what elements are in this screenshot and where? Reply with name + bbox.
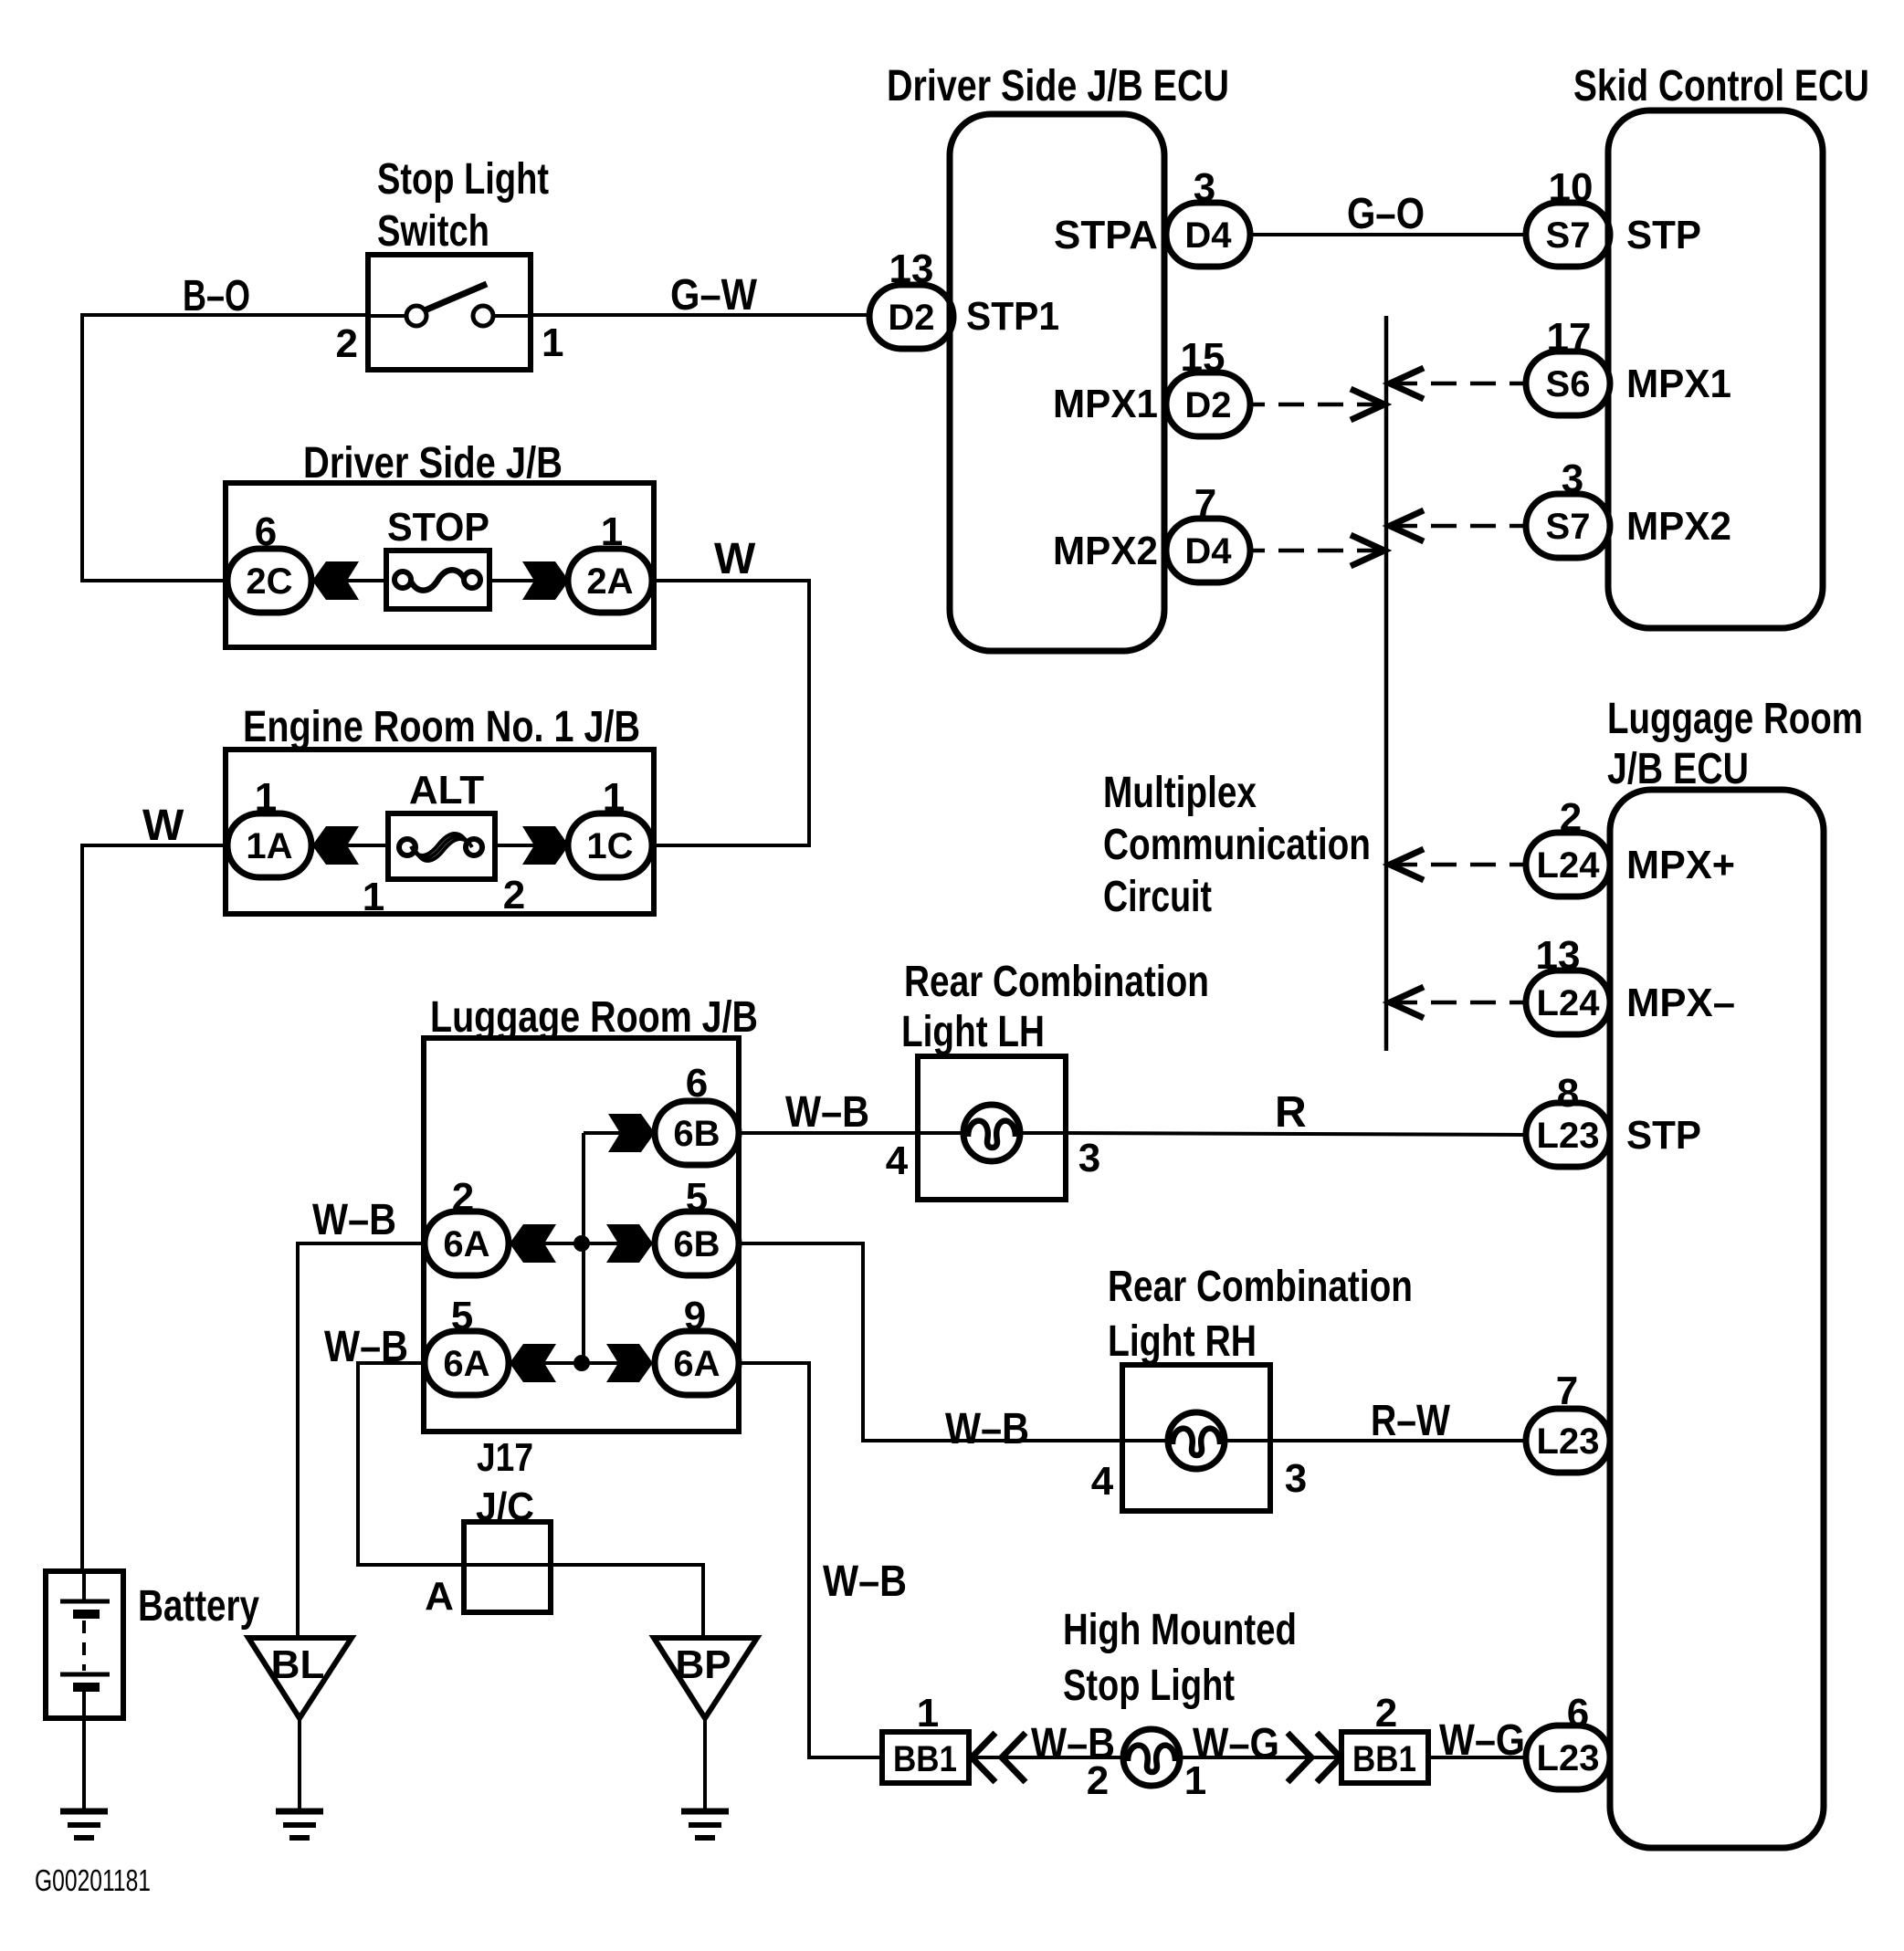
lamp bulb LH xyxy=(963,1105,1020,1161)
wire G-W switch to D2 xyxy=(531,313,869,317)
svg-text:Communication: Communication xyxy=(1103,821,1371,869)
wire R-W RH to L23 xyxy=(1270,1439,1526,1442)
svg-text:10: 10 xyxy=(1549,165,1594,210)
connector 6B pin 5 row2 xyxy=(655,1175,739,1275)
junction arrow right at 1C xyxy=(522,826,569,865)
junction arrow left row3 xyxy=(510,1344,556,1382)
Luggage Room J/B box xyxy=(424,993,758,1480)
svg-text:5: 5 xyxy=(451,1294,473,1338)
svg-text:J/C: J/C xyxy=(476,1484,534,1529)
svg-text:3: 3 xyxy=(1285,1456,1307,1501)
svg-text:17: 17 xyxy=(1547,315,1592,360)
connector L24 pin 2 (MPX+) xyxy=(1526,795,1610,897)
connector D2 pin 13 (STP1) xyxy=(869,246,953,349)
wire BP to ground xyxy=(703,1718,707,1811)
connector 6A pin 9 row3 xyxy=(655,1294,739,1395)
ground BL xyxy=(276,1811,323,1838)
svg-text:BB1: BB1 xyxy=(893,1739,957,1779)
svg-text:BL: BL xyxy=(271,1642,325,1687)
svg-text:6A: 6A xyxy=(673,1344,720,1384)
junction chevrons left of high mounted bulb xyxy=(972,1733,995,1782)
svg-text:1: 1 xyxy=(363,875,384,919)
svg-text:MPX1: MPX1 xyxy=(1053,382,1158,426)
svg-text:L23: L23 xyxy=(1537,1738,1600,1778)
svg-text:4: 4 xyxy=(1091,1459,1114,1504)
connector 6B pin 6 xyxy=(655,1061,739,1165)
wire W-B row2 to BL vertical xyxy=(298,1243,426,1638)
svg-text:W: W xyxy=(714,535,756,583)
svg-text:1: 1 xyxy=(917,1691,939,1736)
wire dashed MPX+ from L24 with arrow xyxy=(1390,849,1524,880)
svg-text:W–B: W–B xyxy=(312,1196,396,1244)
svg-text:Stop Light: Stop Light xyxy=(377,155,549,204)
svg-text:STP1: STP1 xyxy=(966,294,1059,339)
svg-text:L24: L24 xyxy=(1537,845,1601,886)
svg-text:2: 2 xyxy=(503,873,525,918)
svg-text:5: 5 xyxy=(686,1175,708,1220)
svg-text:L23: L23 xyxy=(1537,1116,1600,1156)
svg-text:W–B: W–B xyxy=(945,1405,1029,1453)
svg-text:G00201181: G00201181 xyxy=(35,1863,151,1897)
svg-text:Engine Room No. 1 J/B: Engine Room No. 1 J/B xyxy=(243,703,640,751)
fusible link ALT xyxy=(363,768,525,919)
wire dashed MPX1 from S6 with arrow xyxy=(1390,368,1524,399)
wire W-B 6B to rear light LH xyxy=(739,1131,918,1135)
connector L24 pin 13 (MPX-) xyxy=(1526,933,1610,1034)
wire multiplex communication vertical bus xyxy=(1384,316,1389,1051)
junction arrow left row2 xyxy=(510,1224,556,1263)
svg-text:Switch: Switch xyxy=(377,207,489,256)
connector S7 pin 10 (STP) xyxy=(1526,165,1610,267)
svg-text:G–O: G–O xyxy=(1347,190,1425,238)
svg-text:BP: BP xyxy=(675,1642,731,1687)
svg-text:W–B: W–B xyxy=(324,1323,408,1371)
svg-text:Driver Side J/B: Driver Side J/B xyxy=(303,439,563,488)
Driver Side J/B ECU box U1 xyxy=(887,62,1229,651)
ground triangle BL xyxy=(248,1638,352,1718)
svg-text:Skid Control ECU: Skid Control ECU xyxy=(1573,62,1869,110)
svg-text:3: 3 xyxy=(1194,165,1215,210)
wire W-B row3 to J/C xyxy=(358,1363,703,1638)
junction arrow right at 6B top xyxy=(608,1114,655,1152)
svg-text:Luggage Room: Luggage Room xyxy=(1607,695,1863,743)
wire row2 6A to 6B with junction xyxy=(509,1242,655,1245)
svg-text:Rear Combination: Rear Combination xyxy=(1108,1263,1413,1311)
wire W-B 6A row3 down to BB1 xyxy=(739,1363,882,1757)
svg-text:D2: D2 xyxy=(888,298,934,338)
Driver Side J/B box xyxy=(226,439,654,647)
svg-text:6A: 6A xyxy=(443,1224,489,1264)
lamp bulb high mounted stop light xyxy=(1123,1729,1180,1786)
svg-text:High Mounted: High Mounted xyxy=(1063,1606,1297,1654)
svg-text:3: 3 xyxy=(1078,1136,1100,1180)
svg-text:STPA: STPA xyxy=(1054,213,1158,257)
svg-text:S7: S7 xyxy=(1546,507,1591,547)
wire W-G bulb to BB1 xyxy=(1180,1756,1341,1759)
connector 1A pin 1 xyxy=(227,775,311,877)
svg-text:6: 6 xyxy=(1567,1691,1589,1736)
wire inner vertical in luggage J/B xyxy=(582,1133,585,1363)
node High Mounted Stop Light label xyxy=(1063,1606,1297,1710)
svg-text:W: W xyxy=(142,802,184,850)
svg-text:2: 2 xyxy=(1087,1758,1109,1803)
svg-text:D4: D4 xyxy=(1184,215,1232,256)
svg-text:STP: STP xyxy=(1626,1113,1701,1158)
svg-text:7: 7 xyxy=(1194,481,1216,526)
wire B-O from stop light switch to left vertical xyxy=(82,315,368,581)
svg-text:S7: S7 xyxy=(1546,215,1591,256)
ground triangle BP xyxy=(654,1638,757,1718)
svg-text:D4: D4 xyxy=(1184,531,1232,572)
connector L23 pin 6 xyxy=(1526,1691,1610,1789)
svg-text:1: 1 xyxy=(542,320,563,365)
svg-text:MPX2: MPX2 xyxy=(1626,504,1731,549)
connector 2A pin 1 xyxy=(568,509,652,613)
svg-text:6: 6 xyxy=(686,1061,708,1106)
svg-text:2: 2 xyxy=(1375,1691,1397,1736)
connector D2 pin 15 (MPX1) xyxy=(1166,335,1250,436)
svg-text:7: 7 xyxy=(1556,1369,1578,1413)
fuse STOP xyxy=(386,505,489,609)
wire dashed MPX2 from S7 with arrow xyxy=(1390,510,1524,541)
connector BB1 pin 2 xyxy=(1341,1691,1428,1783)
svg-text:B–O: B–O xyxy=(183,272,250,320)
svg-text:S6: S6 xyxy=(1546,364,1591,404)
svg-text:MPX2: MPX2 xyxy=(1053,529,1158,573)
wire dashed MPX2 from D4 with arrow xyxy=(1250,535,1384,566)
svg-text:Multiplex: Multiplex xyxy=(1103,769,1257,817)
connector L23 pin 8 (STP) xyxy=(1526,1071,1610,1167)
wire G-O from D4 to S7 xyxy=(1250,233,1526,236)
connector 6A pin 2 row2 xyxy=(425,1175,509,1275)
stop light switch SW xyxy=(336,155,564,370)
svg-text:R: R xyxy=(1275,1088,1307,1137)
svg-text:1: 1 xyxy=(255,775,277,820)
wire inner stub to 6B top xyxy=(584,1131,655,1135)
connector D4 pin 7 (MPX2) xyxy=(1166,481,1250,582)
wire W from 2A down to 1C xyxy=(652,581,809,845)
svg-text:MPX+: MPX+ xyxy=(1626,843,1735,887)
Luggage Room J/B ECU box U3 xyxy=(1607,695,1863,1848)
svg-text:13: 13 xyxy=(1536,933,1581,978)
svg-text:Rear Combination: Rear Combination xyxy=(904,958,1209,1006)
svg-text:2: 2 xyxy=(452,1175,474,1220)
connector D4 pin 3 (STPA) xyxy=(1166,165,1250,267)
svg-text:ALT: ALT xyxy=(409,768,484,813)
wire dashed MPX1 from D2 with arrow xyxy=(1250,389,1384,420)
svg-text:Battery: Battery xyxy=(138,1582,259,1631)
wire R from LH to L23 xyxy=(1066,1133,1526,1135)
svg-text:2C: 2C xyxy=(246,561,292,602)
junction arrow left at 1A xyxy=(312,826,359,865)
ground BP xyxy=(681,1811,729,1838)
wire 6B row2 down to rear light RH xyxy=(739,1243,1122,1441)
Skid Control ECU box U2 xyxy=(1573,62,1869,628)
svg-text:STOP: STOP xyxy=(387,505,489,550)
connector S6 pin 17 (MPX1) xyxy=(1526,315,1610,415)
junction chevrons right toward BB1 xyxy=(1288,1733,1311,1782)
svg-text:W–B: W–B xyxy=(823,1558,907,1606)
junction arrow right at 2A xyxy=(522,561,569,600)
junction arrow right row3 xyxy=(606,1344,653,1382)
svg-text:R–W: R–W xyxy=(1371,1397,1451,1445)
svg-text:W–B: W–B xyxy=(785,1088,869,1137)
wire fuse to 2A xyxy=(489,579,569,582)
svg-text:Driver Side J/B ECU: Driver Side J/B ECU xyxy=(887,62,1229,110)
svg-text:MPX1: MPX1 xyxy=(1626,362,1731,406)
wire battery to ground xyxy=(82,1718,86,1811)
connector 1C pin 1 xyxy=(568,775,652,877)
junction arrow left at 2C xyxy=(312,561,359,600)
svg-text:6: 6 xyxy=(255,509,277,554)
svg-text:J/B ECU: J/B ECU xyxy=(1607,745,1749,793)
svg-text:6B: 6B xyxy=(673,1114,720,1154)
svg-text:D2: D2 xyxy=(1184,385,1231,425)
svg-text:G–W: G–W xyxy=(670,271,758,320)
junction block J/C xyxy=(425,1484,551,1619)
connector 2C pin 6 xyxy=(227,509,311,613)
svg-text:W–G: W–G xyxy=(1439,1716,1525,1765)
svg-text:9: 9 xyxy=(684,1294,706,1338)
svg-text:15: 15 xyxy=(1181,335,1226,380)
svg-text:L23: L23 xyxy=(1537,1421,1600,1462)
wire W from 1A to left vertical and battery xyxy=(82,845,229,1571)
svg-text:STP: STP xyxy=(1626,213,1701,257)
connector BB1 pin 1 xyxy=(882,1691,969,1783)
svg-text:1: 1 xyxy=(603,775,625,820)
svg-text:6A: 6A xyxy=(443,1344,489,1384)
svg-text:A: A xyxy=(425,1574,454,1619)
battery BT1 xyxy=(46,1571,259,1718)
svg-text:1: 1 xyxy=(601,509,623,554)
svg-text:4: 4 xyxy=(886,1138,909,1183)
svg-text:1A: 1A xyxy=(246,826,292,866)
svg-text:1C: 1C xyxy=(586,826,633,866)
svg-text:Stop Light: Stop Light xyxy=(1063,1662,1235,1710)
wire 2C to fuse xyxy=(311,579,386,582)
svg-text:8: 8 xyxy=(1557,1071,1579,1116)
svg-text:Circuit: Circuit xyxy=(1103,873,1212,921)
wire 1A to fusible link xyxy=(311,844,388,847)
svg-text:L24: L24 xyxy=(1537,983,1601,1023)
junction dot row2 xyxy=(573,1235,590,1252)
wire row3 6A to 6A with junction xyxy=(509,1361,655,1365)
svg-text:MPX–: MPX– xyxy=(1626,981,1735,1025)
connector L23 pin 7 xyxy=(1526,1369,1610,1473)
wire W-G BB1 to L23 xyxy=(1428,1756,1526,1759)
svg-text:Light RH: Light RH xyxy=(1108,1317,1257,1366)
Engine Room No. 1 J/B box xyxy=(226,703,654,914)
svg-text:2A: 2A xyxy=(586,561,633,602)
svg-text:13: 13 xyxy=(889,246,934,291)
svg-text:3: 3 xyxy=(1562,456,1583,501)
wire dashed MPX- from L24 with arrow xyxy=(1390,987,1524,1018)
lamp bulb RH xyxy=(1168,1412,1225,1469)
rear combination light LH xyxy=(886,958,1209,1200)
connector 6A pin 5 row3 xyxy=(425,1294,509,1395)
svg-text:2: 2 xyxy=(1560,795,1582,840)
wire link to 1C xyxy=(495,844,569,847)
junction arrow right row2 xyxy=(606,1224,653,1263)
svg-text:Luggage Room J/B: Luggage Room J/B xyxy=(430,993,758,1042)
svg-text:Light LH: Light LH xyxy=(901,1008,1045,1056)
svg-text:BB1: BB1 xyxy=(1352,1739,1416,1779)
svg-text:2: 2 xyxy=(336,321,358,366)
ground battery xyxy=(60,1811,108,1838)
node Multiplex Communication Circuit label xyxy=(1103,769,1371,921)
junction dot row3 xyxy=(573,1355,590,1371)
svg-text:J17: J17 xyxy=(477,1435,533,1480)
wire BL to ground xyxy=(298,1718,301,1811)
svg-text:W–G: W–G xyxy=(1193,1720,1279,1768)
wire W-B BB1 to bulb xyxy=(969,1756,1123,1759)
connector S7 pin 3 (MPX2) xyxy=(1526,456,1610,558)
rear combination light RH xyxy=(1091,1263,1413,1511)
svg-text:6B: 6B xyxy=(673,1224,720,1264)
